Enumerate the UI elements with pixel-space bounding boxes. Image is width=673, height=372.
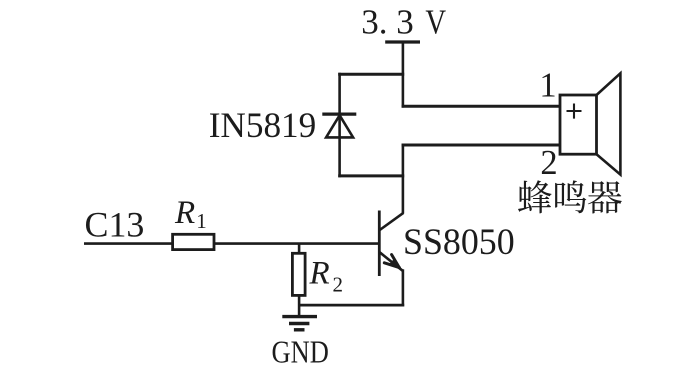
svg-text:1: 1 — [196, 209, 207, 233]
svg-text:2: 2 — [540, 144, 557, 182]
svg-text:1: 1 — [539, 67, 556, 105]
svg-text:SS8050: SS8050 — [403, 221, 515, 262]
svg-text:R: R — [309, 256, 330, 292]
svg-text:3: 3 — [396, 3, 414, 42]
svg-text:R: R — [174, 195, 195, 231]
svg-text:C13: C13 — [85, 205, 145, 245]
svg-text:3.: 3. — [361, 3, 387, 42]
svg-text:IN5819: IN5819 — [209, 105, 317, 146]
svg-text:GND: GND — [272, 335, 329, 370]
svg-text:2: 2 — [333, 273, 344, 297]
svg-text:V: V — [425, 2, 446, 41]
